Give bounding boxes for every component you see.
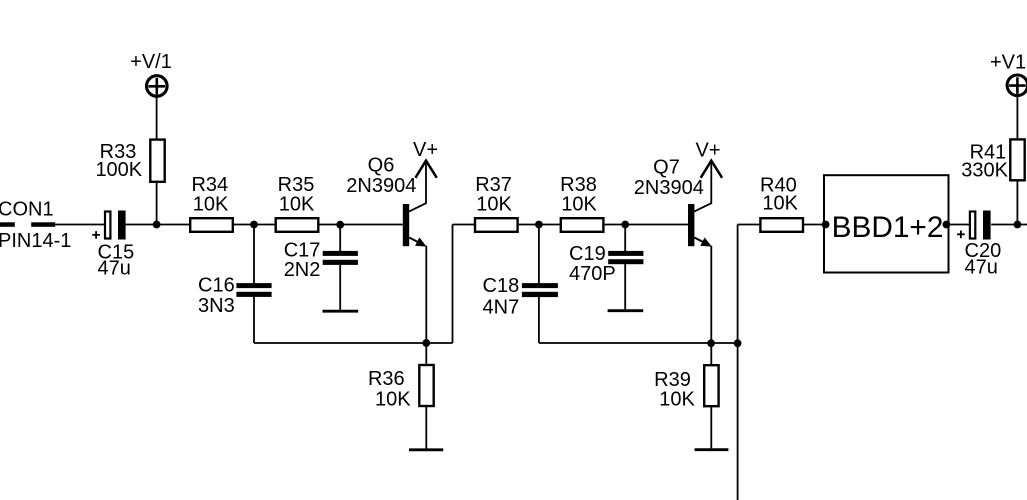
svg-text:C18: C18 (483, 275, 520, 297)
svg-text:2N2: 2N2 (284, 259, 321, 281)
svg-text:Q7: Q7 (653, 157, 680, 179)
svg-text:330K: 330K (961, 159, 1008, 181)
svg-text:C19: C19 (569, 243, 606, 265)
svg-text:3N3: 3N3 (198, 295, 235, 317)
svg-text:10K: 10K (476, 193, 512, 215)
svg-text:470P: 470P (569, 263, 616, 285)
svg-text:+V/1: +V/1 (130, 51, 172, 73)
svg-text:C17: C17 (284, 239, 321, 261)
svg-text:2N3904: 2N3904 (346, 175, 416, 197)
svg-text:V+: V+ (413, 139, 438, 161)
svg-text:BBD1+2: BBD1+2 (832, 211, 944, 244)
svg-text:10K: 10K (762, 193, 798, 215)
svg-text:10K: 10K (561, 193, 597, 215)
svg-text:4N7: 4N7 (483, 296, 520, 318)
svg-text:2N3904: 2N3904 (634, 177, 704, 199)
svg-text:10K: 10K (193, 193, 229, 215)
svg-text:10K: 10K (279, 193, 315, 215)
svg-text:V+: V+ (695, 139, 720, 161)
svg-text:PIN14-1: PIN14-1 (0, 230, 71, 252)
svg-text:+V1: +V1 (990, 52, 1026, 74)
svg-text:C16: C16 (198, 274, 235, 296)
svg-text:10K: 10K (659, 388, 695, 410)
svg-text:47u: 47u (965, 256, 998, 278)
svg-text:10K: 10K (375, 389, 411, 411)
svg-text:47u: 47u (98, 257, 131, 279)
svg-text:R36: R36 (368, 368, 405, 390)
svg-text:100K: 100K (95, 159, 142, 181)
svg-text:Q6: Q6 (368, 155, 395, 177)
svg-text:CON1: CON1 (0, 198, 54, 220)
